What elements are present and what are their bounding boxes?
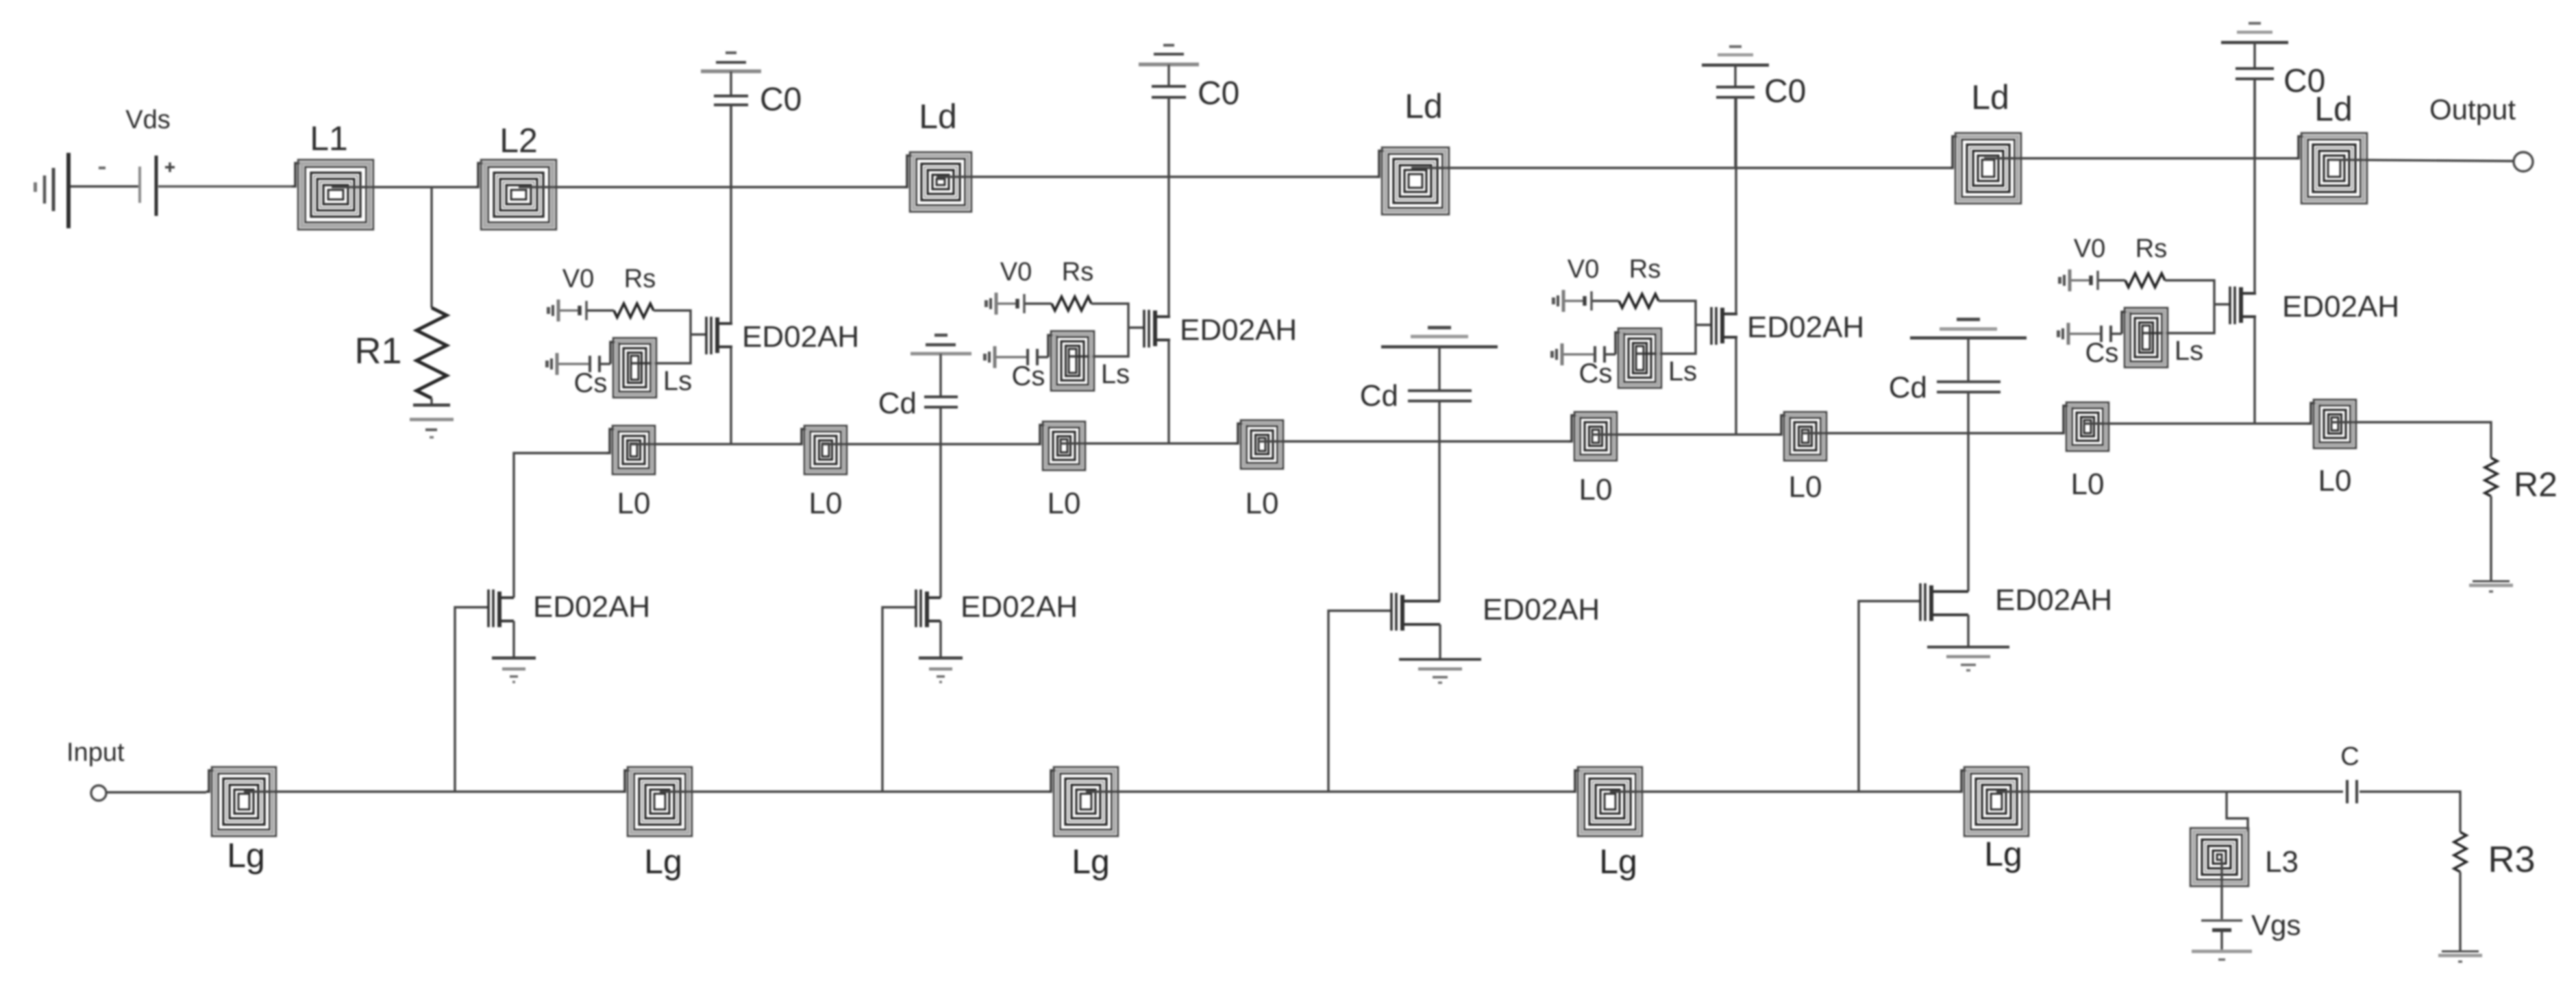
label ED02AH (Q2) <box>961 590 1078 624</box>
wire <box>1610 790 1959 792</box>
capacitor Cs #4 <box>2101 326 2111 342</box>
wire (gate of Q3 from input rail) <box>1328 611 1390 792</box>
wire (source of Q2) <box>939 621 941 658</box>
wire <box>2253 42 2255 67</box>
inductor Ls #4 <box>2122 308 2168 367</box>
ground (V0 #4) <box>2058 269 2070 291</box>
svg-text:C0: C0 <box>760 82 802 118</box>
svg-text:Lg: Lg <box>227 836 265 875</box>
ground (Vds supply return) <box>34 153 69 228</box>
wire (source to L0 rail #1) <box>730 347 732 444</box>
inductor Ls #2 <box>1048 331 1094 391</box>
input terminal <box>91 785 106 801</box>
svg-text:Ls: Ls <box>2175 336 2203 366</box>
label Output <box>2429 93 2516 125</box>
inductor Ld2 <box>1376 147 1449 215</box>
label R1 <box>354 330 401 371</box>
wire (gate bias loop) <box>2142 280 2214 333</box>
label L0 #2 <box>809 487 843 520</box>
wire (Cd1 / Q2 drain) <box>939 407 941 598</box>
wire <box>2083 422 2308 424</box>
label ED02AH (cascode #1) <box>742 320 859 354</box>
svg-text:Cs: Cs <box>1579 358 1613 389</box>
ground (V0 #3) <box>1552 290 1563 312</box>
ground (above C0 #4) <box>2221 23 2288 42</box>
svg-text:Cs: Cs <box>2085 338 2119 368</box>
ground (Cs #3) <box>1550 343 1562 365</box>
wire <box>1025 302 1052 304</box>
wire <box>1592 433 1779 435</box>
wire <box>2220 930 2222 950</box>
label Cs #3 <box>1579 358 1613 389</box>
label C0 #4 <box>2283 63 2325 99</box>
label Lg #1 <box>227 836 265 875</box>
transistor ED02AH (cascode #2) <box>1143 310 1170 348</box>
capacitor Cs #3 <box>1595 346 1605 363</box>
label Ld (1) <box>919 97 957 136</box>
ground (below R3) <box>2438 951 2482 962</box>
svg-text:R3: R3 <box>2488 839 2535 880</box>
output terminal <box>2514 152 2533 171</box>
ground (V0 #2) <box>984 293 996 315</box>
label L0 #1 <box>617 487 651 520</box>
ground (above Cd #2) <box>1381 328 1498 347</box>
svg-text:Cd: Cd <box>1360 379 1398 413</box>
label L0 #8 <box>2318 464 2352 498</box>
inductor Lg #1 <box>206 767 276 836</box>
wire (L3 to Vgs) <box>2220 857 2222 919</box>
ground (Cs #1) <box>545 353 557 375</box>
label L0 #7 <box>2071 467 2105 501</box>
svg-text:Input: Input <box>66 738 125 767</box>
ground (above C0 #1) <box>701 53 761 71</box>
wire <box>1039 356 1048 358</box>
svg-text:L0: L0 <box>809 487 843 520</box>
inductor L0 #3 <box>1037 422 1085 470</box>
wire <box>106 791 206 793</box>
wire (source to L0 rail #2) <box>1167 340 1169 443</box>
label Cd #3 <box>1889 371 1927 404</box>
wire (gate bias loop) <box>1635 301 1696 354</box>
inductor Ld1 <box>904 152 971 212</box>
svg-text:Cs: Cs <box>574 368 608 398</box>
label C <box>2340 742 2359 771</box>
transistor ED02AH (Q2) <box>915 589 941 627</box>
label Cd #2 <box>1360 379 1398 413</box>
label L0 #3 <box>1048 487 1081 520</box>
label Lg #5 <box>1984 835 2022 873</box>
ground (V0 #1) <box>547 300 558 321</box>
svg-text:L0: L0 <box>617 487 651 520</box>
wire (source to L0 rail #4) <box>2253 317 2255 424</box>
svg-text:ED02AH: ED02AH <box>961 590 1078 624</box>
wire <box>1996 790 2343 792</box>
capacitor Cs #2 <box>1028 349 1037 365</box>
wire <box>1801 432 2061 434</box>
wire <box>1060 442 1235 444</box>
wire <box>1438 347 1440 391</box>
inductor L0 #4 <box>1235 420 1283 469</box>
wire <box>1167 97 1169 177</box>
svg-text:Ld: Ld <box>919 97 957 136</box>
wire (drain to C0 #4) <box>2253 79 2255 293</box>
svg-text:Rs: Rs <box>1062 258 1093 287</box>
svg-text:R2: R2 <box>2514 465 2558 504</box>
svg-text:L0: L0 <box>1246 487 1279 520</box>
svg-text:Ld: Ld <box>1971 78 2009 117</box>
label Cs #4 <box>2085 338 2119 368</box>
capacitor C0 #4 <box>2236 69 2274 79</box>
wire (source of Q3) <box>1439 624 1441 659</box>
svg-text:L0: L0 <box>2318 464 2352 498</box>
wire (Cd2 / Q3 drain) <box>1438 401 1440 601</box>
battery Vgs <box>2201 921 2242 930</box>
wire <box>2330 160 2513 161</box>
svg-text:ED02AH: ED02AH <box>533 590 650 624</box>
label Rs #4 <box>2135 234 2167 263</box>
inductor L0 #2 <box>798 426 847 474</box>
svg-text:Ls: Ls <box>1101 359 1130 389</box>
wire (gate of Q2 from input rail) <box>882 607 915 792</box>
inductor L0 #7 <box>2060 402 2109 451</box>
label Lg #2 <box>644 842 682 881</box>
label L0 #6 <box>1789 470 1822 504</box>
capacitor Cs #1 <box>590 356 599 372</box>
wire (gate bias loop) <box>1068 304 1128 356</box>
inductor Ld4 <box>2295 133 2367 204</box>
inductor Lg #4 <box>1572 767 1642 836</box>
svg-text:Cd: Cd <box>878 387 917 420</box>
wire <box>2070 332 2101 334</box>
transistor ED02AH (Q3) <box>1390 593 1440 631</box>
inductor L3 <box>2190 828 2249 886</box>
battery V0 #4 <box>2091 271 2098 290</box>
wire <box>158 185 292 187</box>
wire <box>71 185 138 187</box>
label Lg #3 <box>1072 842 1110 881</box>
svg-text:Cs: Cs <box>1012 361 1045 391</box>
inductor L0 #6 <box>1778 412 1826 461</box>
wire <box>730 71 732 95</box>
transistor ED02AH (Q4) <box>1919 583 1968 621</box>
svg-text:C: C <box>2340 742 2359 771</box>
svg-text:L0: L0 <box>1789 470 1822 504</box>
svg-text:Lg: Lg <box>1984 835 2022 873</box>
svg-text:Rs: Rs <box>624 265 656 293</box>
inductor Ld3 <box>1949 133 2021 204</box>
wire (Cd3 / Q4 drain) <box>1967 392 1969 592</box>
wire <box>1967 338 1969 382</box>
wire (source to L0 rail #3) <box>1735 337 1737 435</box>
label Vds <box>125 106 170 134</box>
resistor Rs #1 <box>614 304 654 317</box>
wire (to L3) <box>2227 792 2248 831</box>
wire <box>1606 353 1615 355</box>
transistor ED02AH (cascode #4) <box>2229 287 2256 324</box>
svg-text:L0: L0 <box>2071 467 2105 501</box>
wire <box>2360 792 2460 832</box>
inductor Ls #3 <box>1615 328 1661 388</box>
label L3 <box>2265 845 2299 879</box>
svg-text:V0: V0 <box>2074 234 2105 263</box>
battery V0 #1 <box>580 301 586 320</box>
ground (Cs #4) <box>2057 323 2068 345</box>
svg-text:L0: L0 <box>1579 473 1613 507</box>
label Ld (4) <box>2314 90 2353 128</box>
wire <box>2331 422 2491 458</box>
svg-text:Vds: Vds <box>125 106 170 134</box>
wire (drain of Q1 up to middle rail) <box>514 453 607 598</box>
label Cd #1 <box>878 387 917 420</box>
label ED02AH (Q4) <box>1995 583 2112 617</box>
wire (drain to C0 #3) <box>1735 97 1737 314</box>
label L1 <box>310 119 348 158</box>
wire <box>1984 157 2295 159</box>
wire <box>430 398 432 405</box>
svg-text:C0: C0 <box>2283 63 2325 99</box>
label Ls #3 <box>1668 356 1697 387</box>
wire <box>519 186 904 188</box>
wire <box>1734 97 1736 167</box>
svg-text:V0: V0 <box>1000 258 1032 287</box>
wire <box>2459 872 2461 951</box>
wire (source of Q4) <box>1967 615 1969 647</box>
label Rs #1 <box>624 265 656 293</box>
label R2 <box>2514 465 2558 504</box>
transistor ED02AH (cascode #3) <box>1710 307 1737 345</box>
label Cs #1 <box>574 368 608 398</box>
capacitor C0 #1 <box>714 96 748 105</box>
wire <box>2071 279 2090 281</box>
battery V0 #3 <box>1585 291 1592 310</box>
label Rs #2 <box>1062 258 1093 287</box>
ground (Q3 source) <box>1399 659 1481 683</box>
wire <box>1167 64 1169 85</box>
wire (drain to C0 #1) <box>730 105 732 324</box>
label ED02AH (Q3) <box>1483 593 1600 626</box>
wire <box>332 186 475 188</box>
label ED02AH (cascode #2) <box>1180 313 1297 347</box>
battery Vds minus mark <box>99 167 106 169</box>
label V0 #3 <box>1568 255 1599 284</box>
resistor Rs #4 <box>2125 273 2165 287</box>
ground (Q4 source) <box>1927 647 2009 670</box>
battery Vds <box>140 156 156 216</box>
inductor L1 <box>292 160 373 230</box>
wire <box>939 354 941 397</box>
battery V0 #2 <box>1017 294 1024 313</box>
label ED02AH (cascode #4) <box>2282 290 2399 324</box>
capacitor C0 #2 <box>1152 86 1186 97</box>
svg-text:C0: C0 <box>1198 75 1239 112</box>
resistor R2 <box>2485 458 2497 496</box>
label L0 #5 <box>1579 473 1613 507</box>
capacitor C (series) <box>2347 780 2357 803</box>
wire <box>2112 332 2122 334</box>
ground (above C0 #3) <box>1702 47 1769 65</box>
wire (source of Q1) <box>512 621 515 658</box>
wire (gate bias loop) <box>630 310 691 363</box>
inductor Lg #2 <box>622 767 692 836</box>
svg-text:Ls: Ls <box>663 366 692 396</box>
wire <box>937 175 1376 178</box>
wire <box>560 309 579 311</box>
svg-text:ED02AH: ED02AH <box>742 320 859 354</box>
ground (above C0 #2) <box>1139 45 1199 64</box>
wire <box>2253 79 2255 158</box>
svg-text:C0: C0 <box>1764 73 1806 110</box>
resistor Rs #2 <box>1052 297 1091 310</box>
svg-text:Lg: Lg <box>644 842 682 881</box>
wire <box>587 309 614 311</box>
capacitor Cd #3 <box>1937 382 2001 392</box>
label V0 #4 <box>2074 234 2105 263</box>
label L0 #4 <box>1246 487 1279 520</box>
wire (gate stub) <box>691 333 705 335</box>
label Cs #2 <box>1012 361 1045 391</box>
label L2 <box>499 121 538 160</box>
svg-text:L2: L2 <box>499 121 538 160</box>
svg-text:Cd: Cd <box>1889 371 1927 404</box>
label Ld (2) <box>1404 87 1443 125</box>
svg-text:L3: L3 <box>2265 845 2299 879</box>
label Ls #4 <box>2175 336 2203 366</box>
wire <box>1258 440 1569 442</box>
wire <box>1592 300 1619 302</box>
label ED02AH (Q1) <box>533 590 650 624</box>
label C0 #3 <box>1764 73 1806 110</box>
svg-text:ED02AH: ED02AH <box>2282 290 2399 324</box>
resistor R3 <box>2454 832 2466 872</box>
wire <box>601 363 610 365</box>
label C0 #2 <box>1198 75 1239 112</box>
svg-text:ED02AH: ED02AH <box>1747 310 1864 344</box>
wire <box>996 356 1027 358</box>
label Ld (3) <box>1971 78 2009 117</box>
label V0 #1 <box>562 265 594 293</box>
wire (gate of Q1 from input rail) <box>455 607 487 792</box>
svg-text:ED02AH: ED02AH <box>1180 313 1297 347</box>
wire (drain to C0 #2) <box>1167 97 1169 317</box>
label Ls #2 <box>1101 359 1130 389</box>
svg-text:ED02AH: ED02AH <box>1483 593 1600 626</box>
svg-text:ED02AH: ED02AH <box>1995 583 2112 617</box>
wire <box>2490 496 2492 581</box>
wire <box>1086 790 1572 792</box>
svg-text:V0: V0 <box>562 265 594 293</box>
wire <box>558 363 589 365</box>
ground (Q2 source) <box>919 658 963 682</box>
wire (gate stub) <box>1696 324 1710 326</box>
ground (above Cd #3) <box>1910 319 2027 338</box>
wire <box>821 443 1037 445</box>
svg-text:L1: L1 <box>310 119 348 158</box>
svg-text:Vgs: Vgs <box>2251 909 2301 941</box>
battery Vds plus mark <box>165 162 175 172</box>
svg-text:L0: L0 <box>1048 487 1081 520</box>
inductor Lg #5 <box>1959 767 2029 836</box>
wire <box>1565 300 1584 302</box>
inductor L0 #8 <box>2307 400 2356 448</box>
wire <box>998 302 1017 304</box>
wire <box>244 790 622 792</box>
resistor R1 <box>417 308 447 398</box>
svg-text:Lg: Lg <box>1072 842 1110 881</box>
svg-text:Ls: Ls <box>1668 356 1697 387</box>
inductor Ls #1 <box>610 338 656 398</box>
resistor Rs #3 <box>1619 294 1659 308</box>
wire <box>2098 279 2125 281</box>
ground (above Cd #1) <box>911 335 971 354</box>
capacitor C0 #3 <box>1716 87 1755 97</box>
wire <box>660 790 1048 792</box>
label R3 <box>2488 839 2535 880</box>
label Rs #3 <box>1629 255 1661 284</box>
svg-text:Rs: Rs <box>2135 234 2167 263</box>
ground (Q1 source) <box>492 658 536 682</box>
wire <box>1563 353 1594 355</box>
svg-text:R1: R1 <box>354 330 401 371</box>
label Ls #1 <box>663 366 692 396</box>
ground (below Vgs) <box>2192 951 2252 960</box>
wire <box>730 105 732 187</box>
label ED02AH (cascode #3) <box>1747 310 1864 344</box>
inductor Lg #3 <box>1048 767 1118 836</box>
svg-text:Output: Output <box>2429 93 2516 125</box>
label Lg #4 <box>1599 842 1637 881</box>
wire <box>630 443 799 445</box>
ground (below R1) <box>410 405 454 437</box>
svg-text:Ld: Ld <box>1404 87 1443 125</box>
inductor L2 <box>475 160 556 230</box>
wire <box>1734 65 1736 86</box>
inductor L0 #1 <box>606 426 655 474</box>
label Vgs <box>2251 909 2301 941</box>
inductor L0 #5 <box>1568 412 1617 461</box>
wire (gate stub) <box>1128 326 1143 328</box>
svg-text:Rs: Rs <box>1629 255 1661 284</box>
transistor ED02AH (cascode #1) <box>705 317 732 354</box>
svg-text:Lg: Lg <box>1599 842 1637 881</box>
wire (gate stub) <box>2214 303 2229 305</box>
svg-text:V0: V0 <box>1568 255 1599 284</box>
transistor ED02AH (Q1) <box>487 589 514 627</box>
ground (Cs #2) <box>983 346 995 368</box>
label V0 #2 <box>1000 258 1032 287</box>
label Input <box>66 738 125 767</box>
label C0 #1 <box>760 82 802 118</box>
capacitor Cd #1 <box>924 397 958 407</box>
capacitor Cd #2 <box>1408 391 1472 401</box>
wire <box>1411 167 1949 169</box>
wire (gate of Q4 from input rail) <box>1859 601 1919 792</box>
ground (below R2) <box>2469 581 2513 592</box>
node (R1 junction) <box>430 187 432 308</box>
